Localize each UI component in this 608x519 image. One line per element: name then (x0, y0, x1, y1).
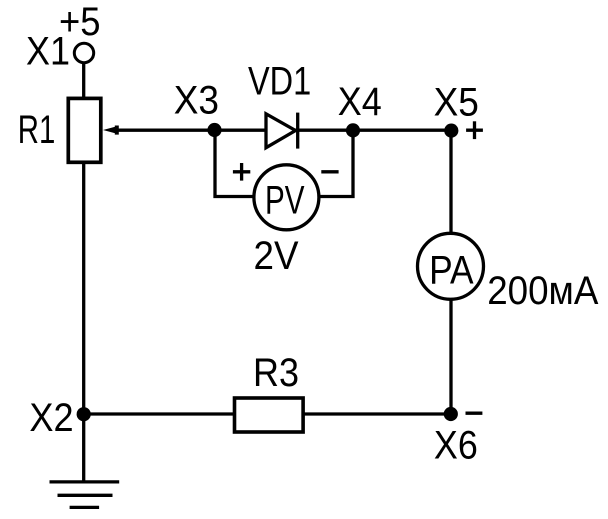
svg-text:X2: X2 (29, 396, 73, 440)
svg-text:X4: X4 (338, 80, 382, 124)
svg-text:R1: R1 (18, 108, 56, 152)
svg-text:PV: PV (265, 179, 305, 223)
svg-text:X1: X1 (26, 30, 70, 74)
svg-text:200мА: 200мА (487, 269, 598, 313)
svg-text:PA: PA (429, 248, 474, 292)
svg-text:X3: X3 (174, 79, 219, 123)
svg-text:2V: 2V (254, 234, 299, 278)
svg-text:R3: R3 (253, 351, 299, 395)
svg-text:X5: X5 (434, 80, 479, 124)
svg-text:X6: X6 (434, 424, 478, 468)
svg-text:VD1: VD1 (248, 60, 311, 104)
